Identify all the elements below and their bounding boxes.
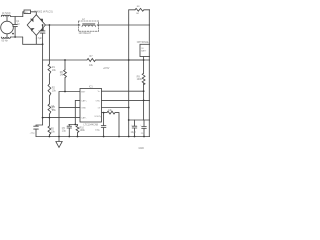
svg-text:BST: BST bbox=[81, 92, 86, 94]
svg-text:1M: 1M bbox=[60, 74, 63, 77]
svg-text:BATT: BATT bbox=[141, 50, 147, 53]
svg-text:CAP+: CAP+ bbox=[81, 99, 87, 102]
svg-text:CAP-: CAP- bbox=[81, 117, 86, 120]
svg-text:60 Hz: 60 Hz bbox=[2, 40, 9, 43]
svg-text:GND: GND bbox=[139, 147, 145, 150]
svg-text:10µF: 10µF bbox=[131, 131, 137, 134]
svg-text:OSC: OSC bbox=[96, 100, 101, 102]
svg-text:117VAC: 117VAC bbox=[2, 12, 11, 15]
svg-text:VOUT: VOUT bbox=[94, 116, 101, 118]
svg-text:4.7µF: 4.7µF bbox=[36, 37, 43, 40]
svg-text:+8.5V: +8.5V bbox=[103, 67, 110, 70]
svg-text:IC1: IC1 bbox=[89, 85, 93, 88]
svg-text:1M: 1M bbox=[136, 13, 139, 15]
svg-text:1N4002 (4 PLCS): 1N4002 (4 PLCS) bbox=[34, 11, 53, 14]
svg-text:100k: 100k bbox=[137, 78, 143, 81]
svg-text:OPTIONAL: OPTIONAL bbox=[137, 41, 150, 44]
svg-text:100k: 100k bbox=[80, 129, 86, 132]
svg-text:10µ: 10µ bbox=[62, 130, 67, 133]
svg-text:100µ: 100µ bbox=[95, 130, 101, 132]
svg-text:LTC1044CN8: LTC1044CN8 bbox=[84, 124, 99, 127]
svg-text:GND: GND bbox=[81, 108, 86, 110]
svg-text:+10µ: +10µ bbox=[30, 133, 36, 135]
svg-text:12V RELAY: 12V RELAY bbox=[79, 32, 92, 35]
